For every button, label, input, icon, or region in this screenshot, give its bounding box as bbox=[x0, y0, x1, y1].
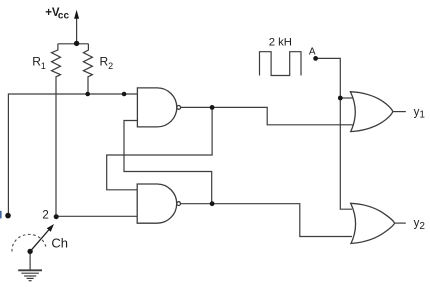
svg-text:A: A bbox=[309, 46, 316, 57]
svg-text:cc: cc bbox=[58, 11, 70, 22]
svg-text:2 kH: 2 kH bbox=[269, 37, 292, 49]
svg-text:R1: R1 bbox=[32, 55, 46, 71]
svg-text:Ch: Ch bbox=[51, 235, 68, 250]
svg-text:2: 2 bbox=[42, 209, 48, 221]
svg-text:R2: R2 bbox=[100, 55, 114, 71]
svg-text:y1: y1 bbox=[414, 106, 426, 120]
svg-text:y2: y2 bbox=[414, 218, 426, 233]
